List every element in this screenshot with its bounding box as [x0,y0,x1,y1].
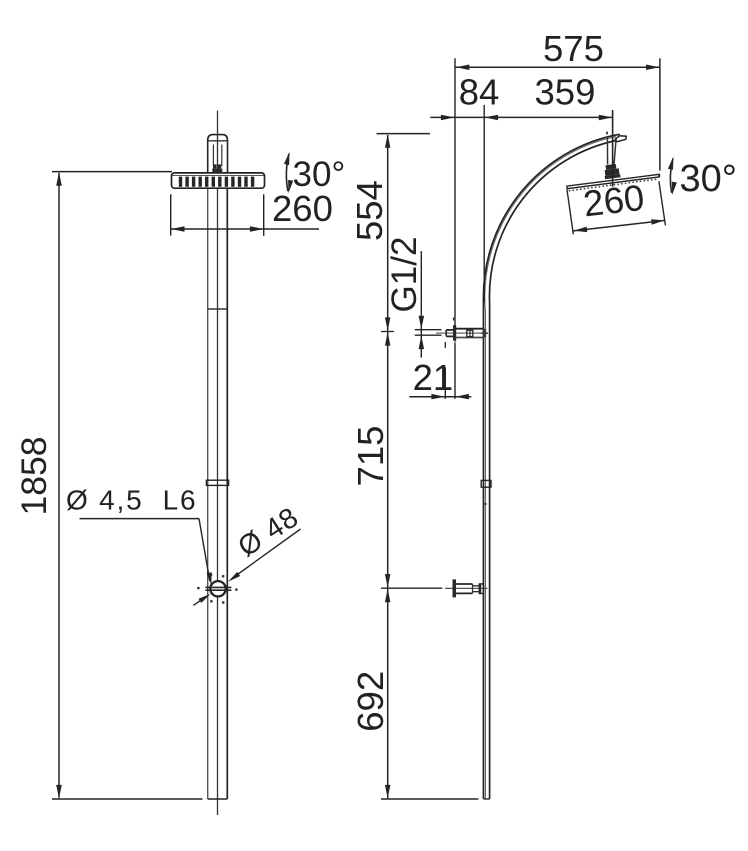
svg-text:21: 21 [413,357,454,398]
svg-text:554: 554 [349,180,390,241]
svg-text:692: 692 [350,671,391,732]
svg-text:260: 260 [272,188,333,229]
svg-text:G1/2: G1/2 [385,237,424,313]
svg-text:575: 575 [543,28,604,69]
svg-text:1858: 1858 [14,437,54,516]
svg-text:359: 359 [535,72,596,113]
svg-text:Ø 4,5 L6: Ø 4,5 L6 [66,485,197,516]
svg-text:30°: 30° [680,158,737,200]
svg-text:715: 715 [350,426,391,487]
svg-text:260: 260 [581,177,646,225]
svg-text:84: 84 [459,72,500,113]
svg-text:30°: 30° [293,155,346,194]
